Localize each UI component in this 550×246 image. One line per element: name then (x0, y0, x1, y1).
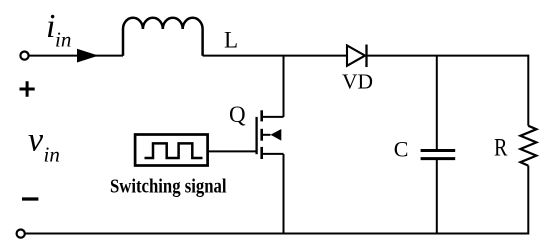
diode VD (347, 45, 367, 68)
plus sign (20, 81, 35, 97)
svg-text:v: v (28, 122, 44, 159)
current arrow i_in (77, 49, 99, 63)
svg-text:VD: VD (342, 69, 373, 93)
input terminal (top-left open circle) (20, 52, 28, 60)
svg-text:C: C (394, 136, 409, 161)
bottom terminal (open circle) (17, 230, 25, 238)
svg-text:in: in (55, 28, 71, 52)
wire: block to MOSFET gate (208, 150, 257, 152)
wire: top-right corner down to resistor (527, 55, 529, 126)
capacitor C (421, 151, 456, 159)
minus sign (22, 197, 38, 200)
wire: top terminal to inductor (29, 55, 123, 57)
svg-text:L: L (224, 27, 238, 52)
svg-text:Switching signal: Switching signal (110, 176, 227, 198)
inductor L (123, 18, 203, 56)
transistor Q (MOSFET) (257, 110, 284, 159)
resistor R (520, 126, 536, 166)
wire: MOSFET source to bottom rail (283, 154, 285, 234)
square wave symbol (145, 143, 203, 158)
wire: capacitor to bottom rail (436, 159, 438, 234)
svg-text:in: in (44, 143, 60, 167)
wire: top rail to capacitor (436, 56, 438, 150)
wire: resistor to bottom-right corner (527, 166, 529, 235)
svg-text:Q: Q (229, 102, 246, 127)
wire: diode cathode to top-right corner (367, 55, 529, 57)
wire: bottom rail (25, 233, 528, 235)
switching signal block (135, 135, 208, 166)
wire: MOSFET drain to top rail (283, 56, 285, 117)
wire: inductor to diode anode (top rail left) (203, 55, 347, 57)
svg-text:R: R (494, 135, 508, 162)
